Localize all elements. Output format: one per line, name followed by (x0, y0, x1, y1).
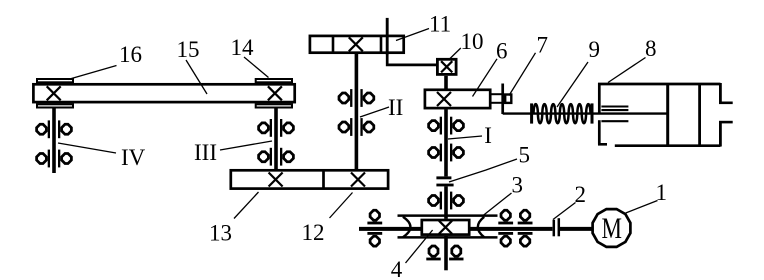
post through bar 11 (386, 18, 389, 55)
leader to III (220, 141, 272, 150)
leader to 11 (396, 29, 429, 41)
follower stem 7 upper line (492, 93, 504, 95)
label III (194, 140, 217, 165)
lower cap left on bar 15 (37, 104, 73, 107)
spring 9 right plate (591, 103, 594, 123)
svg-text:11: 11 (429, 12, 451, 37)
bar 13/12 (bottom frame) (231, 170, 388, 188)
damper 8 piston (666, 84, 669, 146)
follower flange 7 (501, 84, 504, 115)
rod from follower through spring to piston (503, 112, 668, 114)
svg-text:IV: IV (121, 145, 146, 170)
svg-text:M: M (602, 212, 623, 245)
leader to 3 (484, 193, 512, 215)
damper 8 inner line a (601, 105, 628, 107)
worm 3 right arc (478, 217, 484, 237)
label 9 (589, 37, 601, 62)
motor 1 letter M (602, 212, 623, 245)
svg-text:12: 12 (302, 220, 325, 245)
lower cap right on bar 15 (256, 104, 292, 107)
svg-text:15: 15 (177, 37, 200, 62)
shaft I lower (444, 236, 448, 270)
label 14 (231, 35, 255, 60)
leader to I (448, 136, 482, 139)
worm wheel box 4 (422, 220, 469, 235)
divider right in bar 11 (380, 36, 383, 54)
worm 3 bottom line (398, 236, 498, 239)
shaft I middle (444, 186, 448, 218)
lower gear left below worm wheel (426, 246, 440, 260)
damper 8 left wall upper (598, 83, 601, 114)
damper 8 bottom wall (615, 144, 721, 147)
shaft from box 10 to bar 6 (444, 76, 448, 90)
label 16 (119, 42, 142, 67)
label I (484, 123, 492, 148)
svg-text:16: 16 (119, 42, 142, 67)
gear on motor shaft (right b) (518, 210, 533, 246)
label 15 (177, 37, 200, 62)
leader to 4 (406, 230, 433, 263)
leader to 8 (608, 58, 646, 83)
bearing box 10 (437, 59, 456, 74)
motor shaft right segment (560, 227, 592, 231)
svg-text:13: 13 (209, 220, 232, 245)
leader to 7 (509, 53, 536, 96)
gear on motor shaft (right a) (498, 210, 513, 246)
label 2 (575, 182, 587, 207)
frame bar 11 (310, 36, 404, 53)
label 5 (519, 143, 531, 168)
divider left in bar 11 (332, 36, 335, 54)
damper 8 inner line b (601, 109, 628, 111)
svg-text:4: 4 (391, 257, 403, 280)
leader to 9 (557, 62, 588, 107)
damper 8 right wall upper (719, 83, 722, 104)
leader to 12 (330, 193, 353, 219)
damper 8 fork lower line (719, 121, 733, 124)
leader to 5 (449, 159, 517, 182)
leader to II (360, 107, 389, 117)
wire from bar 11 to bearing box 10 (387, 53, 437, 65)
divider in bar 12/13 (322, 170, 325, 189)
damper 8 inner line c (601, 120, 628, 122)
leader to 6 (473, 59, 498, 97)
svg-text:II: II (388, 95, 403, 120)
damper 8 right wall lower (719, 122, 722, 147)
coupling 2 left bar (553, 220, 556, 237)
svg-text:I: I (484, 123, 492, 148)
leader to 16 (68, 66, 117, 80)
X mark in bar 13 (269, 173, 283, 187)
gear pair on shaft I (third) (429, 192, 464, 210)
svg-text:2: 2 (575, 182, 587, 207)
svg-text:9: 9 (589, 37, 601, 62)
X mark left on bar 15 (47, 86, 61, 100)
label 11 (429, 12, 451, 37)
label 4 (391, 257, 403, 280)
gear pair on shaft IV (lower) (37, 150, 72, 168)
damper 8 left wall lower (598, 120, 601, 144)
label 6 (496, 39, 508, 64)
gear pair on shaft II (lower) (339, 118, 374, 136)
gear pair z on shaft IV (upper) (37, 120, 72, 138)
svg-text:8: 8 (645, 36, 657, 61)
X mark in bar 11 (349, 37, 363, 51)
svg-text:14: 14 (231, 35, 255, 60)
coupling 5 lower bar (436, 184, 453, 187)
worm 3 top line (398, 214, 498, 217)
follower stem 7 lower line (492, 102, 504, 104)
shaft II (355, 54, 359, 169)
X mark in bar 6 (437, 92, 451, 106)
label 13 (209, 220, 232, 245)
svg-text:1: 1 (656, 180, 668, 205)
shaft III (274, 109, 278, 170)
leader to 14 (244, 57, 269, 78)
label II (388, 95, 403, 120)
cap 14 (upper right) (256, 79, 292, 82)
damper 8 fork upper line (719, 102, 733, 105)
leader to 1 (626, 201, 658, 214)
bearing bar 6 (425, 90, 490, 108)
svg-text:3: 3 (512, 173, 524, 198)
leader to IV (58, 143, 116, 153)
coupling 5 upper bar (436, 176, 451, 179)
cap 16 (upper left) (37, 79, 73, 82)
follower box 7 (505, 95, 511, 103)
shaft IV (52, 109, 56, 174)
coupling 2 right bar (558, 218, 561, 236)
X mark in bar 12 (351, 173, 365, 187)
gear pair on shaft I (second) (429, 144, 464, 162)
gear pair on shaft I (first) (429, 117, 464, 135)
svg-text:5: 5 (519, 143, 531, 168)
gear pair on shaft III (upper) (259, 119, 294, 137)
worm 3 left arc (403, 217, 411, 237)
motor shaft left segment (359, 227, 552, 231)
gear pair on shaft III (lower) (259, 148, 294, 166)
lower gear right below worm wheel (449, 246, 463, 260)
svg-text:10: 10 (461, 29, 484, 54)
label 10 (461, 29, 484, 54)
spring 9 coil (534, 104, 591, 123)
X mark in worm wheel 4 (439, 221, 452, 234)
label 1 (656, 180, 668, 205)
leader to 15 (186, 60, 207, 94)
gear pair on shaft II (upper) (339, 89, 374, 107)
svg-text:7: 7 (537, 33, 549, 58)
svg-text:III: III (194, 140, 217, 165)
damper 8 top wall (598, 83, 720, 86)
label 12 (302, 220, 325, 245)
damper 8 inner wall (698, 83, 701, 146)
damper 8 left foot (598, 143, 607, 146)
motor 1 circle (593, 209, 631, 247)
gear on motor shaft (left) (367, 210, 382, 246)
X mark right on bar 15 (268, 86, 282, 100)
leader to 10 (449, 48, 461, 60)
svg-text:6: 6 (496, 39, 508, 64)
label 3 (512, 173, 524, 198)
leader to 13 (234, 192, 259, 219)
spring 9 left plate (530, 103, 533, 123)
label 7 (537, 33, 549, 58)
leader to 2 (553, 203, 576, 220)
label IV (121, 145, 146, 170)
label 8 (645, 36, 657, 61)
shaft I upper (444, 110, 448, 177)
link bar 15 (33, 84, 294, 102)
